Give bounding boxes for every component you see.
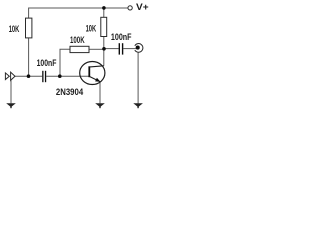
svg-text:10K: 10K xyxy=(86,23,97,33)
resistor R2 10K xyxy=(101,17,107,36)
wire collector drop into transistor xyxy=(103,49,105,66)
ground emitter arrow xyxy=(95,103,105,108)
transistor Q1 body ellipse xyxy=(80,62,105,85)
svg-text:2N3904: 2N3904 xyxy=(56,87,83,97)
wire C2 to output jack pin xyxy=(123,48,136,50)
resistor R3 100K xyxy=(70,46,89,52)
input jack plug body triangle xyxy=(11,72,15,80)
junction dot input bias node xyxy=(27,74,31,78)
svg-text:V+: V+ xyxy=(136,2,149,12)
transistor Q1 emitter arrowhead xyxy=(95,78,100,82)
wire input jack sleeve down to ground xyxy=(10,80,12,103)
svg-text:100nF: 100nF xyxy=(37,58,57,68)
junction dot base node xyxy=(58,74,62,78)
wire top rail from R1 to V+ terminal xyxy=(29,8,128,18)
junction dot collector node xyxy=(102,47,106,51)
terminal V+ circle xyxy=(128,6,132,10)
wire 100K left lead down to base node xyxy=(60,49,70,76)
capacitor C2 100nF plates xyxy=(119,43,124,54)
svg-text:10K: 10K xyxy=(9,24,20,34)
output RCA jack center pin xyxy=(136,46,140,50)
output RCA jack shell arc xyxy=(135,44,143,53)
wire input jack to C1 xyxy=(15,75,42,77)
svg-text:100K: 100K xyxy=(70,35,85,45)
input jack plug tip triangle xyxy=(5,73,9,80)
wire 100K right lead to collector node xyxy=(89,48,104,50)
wire R2 bottom lead to collector node xyxy=(103,37,105,49)
wire C1 to transistor base xyxy=(46,75,88,77)
transistor Q1 base bar xyxy=(88,66,90,77)
capacitor C1 100nF plates xyxy=(42,71,46,82)
wire R2 top lead xyxy=(103,8,105,17)
wire collector node to C2 xyxy=(104,48,119,50)
resistor R1 10K xyxy=(26,18,32,38)
wire emitter down to ground xyxy=(99,82,101,104)
transistor Q1 emitter lead xyxy=(90,77,100,82)
junction dot top rail xyxy=(102,6,106,10)
wire output jack shell down to ground xyxy=(137,52,139,103)
ground input arrow xyxy=(6,103,16,108)
ground output arrow xyxy=(133,103,143,108)
transistor Q1 collector lead xyxy=(90,66,104,67)
wire R1 bottom lead down to input node xyxy=(28,38,30,76)
svg-text:100nF: 100nF xyxy=(111,32,132,42)
